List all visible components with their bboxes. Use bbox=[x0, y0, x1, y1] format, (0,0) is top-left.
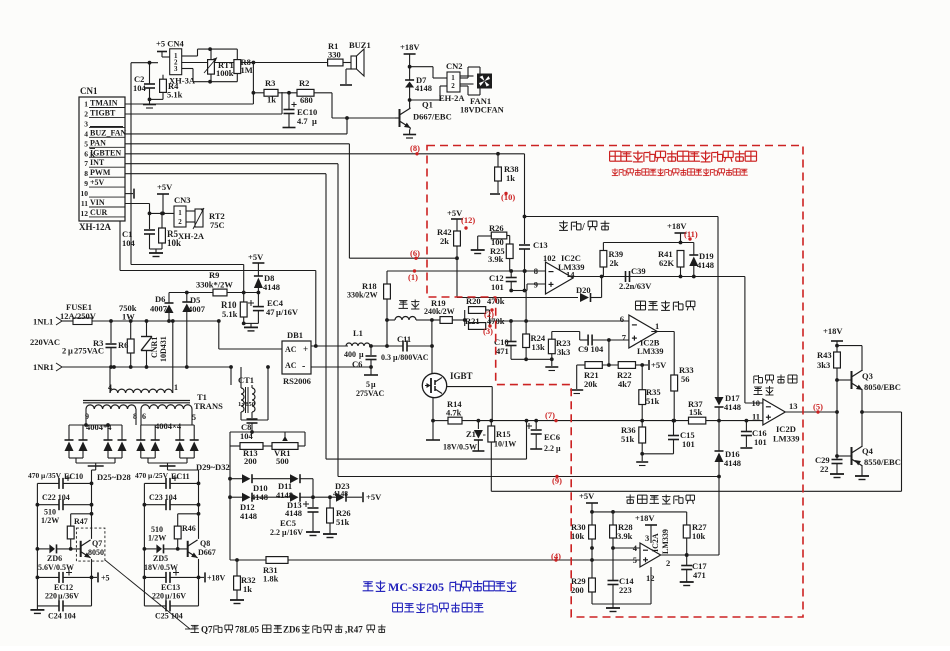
label drive square wave bbox=[754, 375, 798, 396]
svg-text:μ: μ bbox=[312, 116, 317, 126]
svg-text:1/2W: 1/2W bbox=[148, 534, 166, 543]
svg-text:AC: AC bbox=[285, 345, 297, 354]
zener ZD5 18V bbox=[144, 544, 188, 572]
diode D23 +5V bbox=[333, 481, 382, 502]
svg-text:R3: R3 bbox=[93, 338, 103, 348]
wire PAN to node 6 bbox=[125, 144, 457, 258]
svg-text:7: 7 bbox=[84, 159, 88, 168]
svg-text:5: 5 bbox=[84, 139, 88, 148]
label IC2C LM339 bbox=[543, 253, 584, 280]
wire drive out bbox=[785, 410, 864, 414]
svg-text:4148: 4148 bbox=[333, 489, 348, 498]
svg-text:10: 10 bbox=[81, 189, 89, 198]
thermistor RT2 75C bbox=[193, 208, 225, 230]
svg-text:CN3: CN3 bbox=[174, 195, 191, 205]
capacitor C25 104 bbox=[144, 600, 198, 620]
wire DB1+ to L1 bbox=[311, 344, 348, 348]
wire +5 reg rails bbox=[30, 466, 95, 613]
svg-text:R6: R6 bbox=[118, 340, 128, 350]
wire vertical 718 upper bbox=[717, 217, 719, 398]
wire C8 node bbox=[230, 430, 305, 446]
svg-text:C11: C11 bbox=[397, 334, 411, 344]
wire node R3-R2 bbox=[253, 91, 291, 95]
resistor R30 10k bbox=[571, 512, 595, 578]
op-amp IC2D bbox=[752, 398, 798, 425]
wire top rail IC2A bbox=[590, 510, 687, 514]
capacitor EC6 2.2u bbox=[526, 421, 561, 453]
power +18V IC2A bbox=[635, 513, 657, 543]
label D25~D28 bbox=[97, 472, 131, 482]
terminal pin10 bar bbox=[125, 189, 134, 199]
diodes D10 D11 bbox=[230, 474, 313, 502]
red node (9) bbox=[552, 476, 562, 486]
svg-text:C24 104: C24 104 bbox=[48, 612, 76, 621]
wire IC2B out bbox=[651, 332, 674, 376]
svg-text:8050: 8050 bbox=[88, 548, 104, 557]
svg-text:10D431: 10D431 bbox=[159, 336, 168, 362]
svg-text:51k: 51k bbox=[336, 517, 350, 527]
svg-text:,R47: ,R47 bbox=[345, 625, 363, 635]
svg-text:R2: R2 bbox=[299, 78, 309, 88]
svg-text:1NR1: 1NR1 bbox=[33, 362, 54, 372]
svg-text:1:/850: 1:/850 bbox=[238, 401, 255, 408]
ground EC4 bbox=[242, 322, 259, 331]
wire TIGBT bbox=[125, 92, 282, 114]
resistors R21 R22 bbox=[577, 360, 667, 370]
transistor Q7 8050 bbox=[76, 528, 105, 561]
svg-text:200: 200 bbox=[244, 456, 257, 466]
resistor R14 4.7k bbox=[433, 399, 462, 424]
resistor R23 3k3 bbox=[545, 332, 570, 371]
svg-text:8050/EBC: 8050/EBC bbox=[864, 382, 901, 392]
wire to pin6 bbox=[490, 319, 629, 323]
wire +18 reg rails bbox=[143, 466, 201, 606]
svg-text:RS2006: RS2006 bbox=[283, 376, 311, 386]
svg-text:D20: D20 bbox=[576, 285, 591, 295]
svg-text:5.1k: 5.1k bbox=[167, 90, 183, 100]
wire CT1 to DB1 bbox=[241, 365, 270, 420]
connector CN1 XH-12A bbox=[79, 86, 127, 232]
svg-text:/16V: /16V bbox=[286, 528, 303, 537]
red node (11) bbox=[684, 229, 698, 239]
svg-text:1M: 1M bbox=[241, 65, 253, 75]
wire to pin10 bbox=[745, 277, 763, 404]
svg-text:18VDCFAN: 18VDCFAN bbox=[460, 105, 505, 115]
svg-text:EC10: EC10 bbox=[64, 472, 83, 481]
svg-text:EH-2A: EH-2A bbox=[439, 93, 465, 103]
power +18V R41 bbox=[667, 221, 687, 244]
svg-text:400: 400 bbox=[344, 350, 356, 359]
svg-text:IC2D: IC2D bbox=[776, 424, 796, 434]
resistor R19 240k/2W bbox=[424, 298, 467, 323]
terminal 1NL1 bbox=[33, 317, 73, 327]
svg-text:CN2: CN2 bbox=[446, 61, 463, 71]
wire divider bbox=[607, 340, 611, 367]
svg-text:/36V: /36V bbox=[62, 592, 79, 601]
wire D7 to CN2 bbox=[410, 67, 447, 100]
IGBT transistor bbox=[422, 346, 492, 421]
svg-text:4004×4: 4004×4 bbox=[155, 421, 182, 431]
svg-text:+18V: +18V bbox=[823, 326, 843, 336]
capacitor C6 5u bbox=[352, 344, 385, 398]
wire VIN to CN3 bbox=[125, 204, 174, 216]
svg-text:+5V: +5V bbox=[90, 178, 105, 187]
resistor R46 510 bbox=[148, 514, 199, 551]
svg-text:2: 2 bbox=[666, 558, 670, 568]
svg-text:R46: R46 bbox=[182, 524, 196, 533]
wire INT long bus bbox=[125, 164, 718, 477]
svg-text:R18: R18 bbox=[362, 281, 377, 291]
fan FAN1 18VDCFAN bbox=[460, 67, 505, 115]
red dashed boundary small board bbox=[427, 146, 803, 618]
ground C2 R4 bbox=[143, 99, 156, 108]
svg-text:+5V: +5V bbox=[248, 252, 264, 262]
diode D7 4148 bbox=[405, 65, 432, 108]
svg-text:(7): (7) bbox=[545, 410, 555, 420]
power +5V CN3 bbox=[157, 182, 173, 215]
capacitor C2 104 bbox=[133, 63, 155, 102]
svg-text:0.3: 0.3 bbox=[381, 353, 391, 362]
svg-text:500: 500 bbox=[276, 456, 289, 466]
red node (1) bbox=[408, 272, 418, 282]
svg-text:2: 2 bbox=[84, 109, 88, 118]
svg-text:5.1k: 5.1k bbox=[222, 309, 238, 319]
resistor R37 15k bbox=[688, 399, 706, 424]
capacitor 2u X-cap R3 bbox=[93, 321, 117, 367]
svg-text:(11): (11) bbox=[684, 229, 698, 239]
capacitor EC10 470u/35V bbox=[28, 471, 92, 489]
svg-text:μ: μ bbox=[68, 346, 73, 356]
resistor R26 51k bbox=[323, 497, 351, 537]
svg-text:56: 56 bbox=[681, 374, 690, 384]
diode D5 4007 bbox=[182, 291, 205, 367]
svg-text:K: K bbox=[90, 151, 96, 159]
capacitor EC13 220u/16V bbox=[144, 570, 198, 601]
capacitor C29 22 bbox=[815, 412, 844, 478]
wire CT sense down bbox=[228, 446, 232, 560]
diodes D12 D13 bbox=[230, 493, 336, 521]
capacitor C24 104 bbox=[37, 600, 91, 620]
resistor R35 51k bbox=[639, 365, 661, 421]
svg-text:1.8k: 1.8k bbox=[263, 574, 279, 584]
svg-text:μ: μ bbox=[556, 444, 561, 453]
svg-text:1k: 1k bbox=[506, 173, 515, 183]
inductor pan coil bbox=[387, 300, 434, 322]
svg-text:20k: 20k bbox=[584, 379, 598, 389]
svg-text:2: 2 bbox=[178, 218, 182, 226]
svg-text:Q7: Q7 bbox=[92, 539, 102, 548]
capacitor EC4 47u/16V bbox=[248, 293, 299, 324]
svg-text:VIN: VIN bbox=[90, 198, 105, 207]
label IC2D LM339 bbox=[773, 424, 799, 444]
zener Z1 18V bbox=[443, 421, 486, 452]
svg-text:4148: 4148 bbox=[697, 260, 714, 270]
leader line note bbox=[105, 560, 196, 629]
label current surge protect bbox=[626, 495, 695, 505]
svg-text:3k3: 3k3 bbox=[817, 360, 830, 370]
resistor R24 13k bbox=[523, 291, 546, 362]
svg-text:10/1W: 10/1W bbox=[494, 440, 516, 449]
svg-text:CUR: CUR bbox=[90, 208, 108, 217]
capacitor EC11 470u/25V bbox=[135, 471, 199, 489]
svg-text:ZD5: ZD5 bbox=[153, 554, 168, 563]
svg-text:471: 471 bbox=[496, 346, 509, 356]
capacitor C23 104 bbox=[144, 493, 198, 510]
svg-text:2k: 2k bbox=[440, 236, 449, 246]
resistor R39 2k bbox=[600, 249, 623, 277]
capacitor C12 101 bbox=[489, 271, 517, 292]
svg-text:C9 104: C9 104 bbox=[578, 344, 604, 354]
svg-text:R21: R21 bbox=[465, 316, 480, 326]
svg-text:4.7k: 4.7k bbox=[446, 408, 462, 418]
label anti-peak protect bbox=[636, 301, 695, 311]
IGBT emitter terminal bbox=[426, 419, 440, 440]
svg-text:/16V: /16V bbox=[169, 592, 186, 601]
svg-text:+5 CN4: +5 CN4 bbox=[156, 39, 184, 49]
diode D6 4007 bbox=[150, 293, 174, 323]
capacitor EC5 2.2u/16V bbox=[270, 497, 320, 537]
svg-text:R47: R47 bbox=[74, 517, 88, 526]
transistor Q8 D667 bbox=[188, 539, 216, 558]
connector CN2 EH-2A bbox=[439, 61, 474, 103]
svg-text:R15: R15 bbox=[496, 429, 511, 439]
svg-text:+5: +5 bbox=[101, 574, 110, 583]
red node (2) bbox=[484, 309, 494, 319]
wire DB1- return bbox=[311, 365, 373, 369]
svg-text:8550/EBC: 8550/EBC bbox=[864, 457, 901, 467]
svg-text:51k: 51k bbox=[646, 396, 660, 406]
op-amp IC2C bbox=[534, 262, 573, 294]
diode D8 4148 bbox=[254, 273, 280, 293]
svg-text:5: 5 bbox=[366, 380, 370, 389]
svg-text:4007: 4007 bbox=[188, 304, 206, 314]
svg-text:4: 4 bbox=[108, 383, 112, 392]
svg-text:18V/0.5W: 18V/0.5W bbox=[443, 443, 477, 452]
svg-text:BUZ1: BUZ1 bbox=[349, 40, 371, 50]
svg-text:3.9k: 3.9k bbox=[488, 254, 504, 264]
connector CN3 XH-2A bbox=[174, 195, 205, 241]
svg-text:200: 200 bbox=[571, 585, 584, 595]
svg-text:22: 22 bbox=[820, 464, 829, 474]
svg-text:D6: D6 bbox=[155, 294, 165, 304]
svg-text:9: 9 bbox=[84, 179, 88, 188]
svg-text:1: 1 bbox=[655, 321, 659, 331]
resistor R8 1M bbox=[234, 49, 253, 82]
capacitor EC12 220u/36V bbox=[37, 570, 91, 601]
capacitor C8 104 bbox=[240, 416, 258, 441]
wire coil down bbox=[431, 320, 433, 346]
red node (8) bbox=[410, 143, 420, 153]
svg-text:223: 223 bbox=[619, 585, 632, 595]
svg-text:(12): (12) bbox=[461, 215, 475, 225]
capacitor C39 2.2n bbox=[619, 266, 652, 291]
wire +5 rail left bbox=[131, 61, 158, 265]
svg-text:C23 104: C23 104 bbox=[149, 493, 177, 502]
svg-text:D667: D667 bbox=[198, 548, 216, 557]
svg-text:μ: μ bbox=[359, 350, 364, 359]
svg-text:12: 12 bbox=[646, 573, 655, 583]
wire node 1 line bbox=[387, 269, 546, 273]
ground Q4 bbox=[855, 466, 869, 480]
svg-text:IC2A: IC2A bbox=[651, 533, 660, 552]
svg-text:4: 4 bbox=[84, 129, 88, 138]
ground CN3 cluster bbox=[149, 249, 163, 257]
resistor R3top 1k bbox=[264, 78, 297, 105]
svg-text:INT: INT bbox=[90, 158, 105, 167]
svg-text:IGBT: IGBT bbox=[450, 371, 473, 381]
wire BUZ_FAN bbox=[125, 116, 349, 134]
wire pin9 bbox=[509, 284, 545, 292]
red node (3) bbox=[483, 326, 493, 336]
label D29~D32 bbox=[196, 462, 230, 472]
svg-text:12: 12 bbox=[81, 209, 89, 218]
svg-text:62K: 62K bbox=[659, 258, 675, 268]
svg-text:/35V: /35V bbox=[45, 471, 62, 480]
wire out to gate bus bbox=[862, 411, 902, 413]
wire sync top bbox=[525, 216, 719, 218]
svg-text:CNR1: CNR1 bbox=[150, 337, 159, 358]
zener ZD6 5.6V bbox=[37, 544, 80, 572]
svg-text:+18V: +18V bbox=[635, 513, 655, 523]
transformer CT1 1:850 bbox=[238, 367, 255, 420]
resistor R13 200 bbox=[230, 443, 263, 466]
power +18V Q3 bbox=[823, 326, 843, 352]
capacitor C16 101 bbox=[740, 421, 766, 448]
svg-text:LM339: LM339 bbox=[661, 529, 670, 554]
svg-text:1NL1: 1NL1 bbox=[33, 317, 53, 327]
resistor R6 750k 1W bbox=[118, 303, 137, 367]
capacitor C17 471 bbox=[680, 555, 708, 586]
resistor R47 510 bbox=[41, 508, 92, 551]
power +5V R42 bbox=[447, 208, 463, 231]
red node (5) bbox=[813, 402, 823, 412]
svg-text:6: 6 bbox=[142, 412, 146, 421]
red node (4) bbox=[551, 551, 561, 561]
svg-text:(10): (10) bbox=[501, 192, 515, 202]
wire L to DB1 bbox=[219, 321, 282, 349]
svg-text:1W: 1W bbox=[122, 312, 135, 322]
svg-text:Q1: Q1 bbox=[422, 100, 433, 110]
svg-text:ZD6: ZD6 bbox=[283, 625, 301, 635]
svg-text:+5V: +5V bbox=[157, 182, 173, 192]
svg-text:2k: 2k bbox=[610, 258, 619, 268]
inductor L1 400u bbox=[344, 328, 370, 359]
label IC2B LM339 bbox=[637, 338, 663, 357]
transistor Q4 8550 bbox=[835, 446, 901, 467]
labels R21 R22 bbox=[584, 370, 632, 389]
wire TMAIN bbox=[125, 63, 255, 105]
resistor R32 1k bbox=[230, 560, 256, 604]
svg-text:R43: R43 bbox=[817, 350, 832, 360]
wire R42 down bbox=[456, 258, 458, 297]
transistor Q1 D667 bbox=[395, 100, 452, 139]
capacitor C15 101 bbox=[668, 421, 695, 454]
svg-text:+18V: +18V bbox=[400, 42, 420, 52]
svg-text:470: 470 bbox=[28, 471, 40, 480]
svg-text:47: 47 bbox=[266, 307, 275, 317]
thermistor RT1 100k bbox=[204, 49, 234, 82]
resistor R4 5.1k bbox=[150, 75, 183, 100]
svg-text:Q4: Q4 bbox=[862, 446, 874, 456]
red node (6) bbox=[410, 248, 420, 258]
svg-text:10k: 10k bbox=[692, 531, 706, 541]
svg-text:4148: 4148 bbox=[285, 508, 302, 518]
label 4004x4 bbox=[86, 421, 182, 432]
resistor R9 330k/2W bbox=[169, 270, 260, 296]
capacitor EC10 bbox=[283, 93, 318, 128]
svg-text:XH-12A: XH-12A bbox=[79, 222, 111, 232]
resistors R20 R21 470k bbox=[465, 296, 505, 329]
svg-text:/800VAC: /800VAC bbox=[397, 353, 429, 362]
svg-text:75C: 75C bbox=[210, 220, 225, 230]
svg-text:+5V: +5V bbox=[366, 492, 382, 502]
terminal +5 out bbox=[92, 572, 110, 582]
blue title MC-SF205 bbox=[363, 580, 517, 594]
wire N to CT1 bbox=[230, 367, 232, 385]
ground R36 C15 bbox=[636, 454, 673, 466]
svg-text:1: 1 bbox=[178, 209, 182, 217]
label 220VAC bbox=[30, 337, 104, 356]
svg-text:3: 3 bbox=[84, 119, 88, 128]
wire Q3 collector bbox=[835, 344, 862, 371]
svg-text:/16V: /16V bbox=[280, 307, 299, 317]
wire osc out bbox=[568, 275, 745, 279]
svg-text:4007: 4007 bbox=[150, 304, 168, 314]
svg-text:EC6: EC6 bbox=[544, 432, 560, 442]
buzzer BUZ1 bbox=[340, 40, 371, 85]
potentiometer VR1 500 bbox=[263, 432, 305, 466]
svg-text:4.7: 4.7 bbox=[297, 116, 308, 126]
diode D20 bbox=[580, 275, 603, 302]
diode D16 4148 bbox=[715, 421, 742, 479]
svg-text:330: 330 bbox=[328, 50, 341, 60]
capacitor C10 471 bbox=[494, 321, 552, 359]
svg-text:C22 104: C22 104 bbox=[42, 493, 70, 502]
bridge diodes D29-D32 bbox=[136, 409, 198, 466]
svg-text:PAN: PAN bbox=[90, 138, 106, 147]
svg-text:4148: 4148 bbox=[263, 282, 280, 292]
svg-text:10k: 10k bbox=[571, 531, 585, 541]
resistor R25 3.9k bbox=[488, 236, 513, 272]
svg-text:TRANS: TRANS bbox=[194, 401, 223, 411]
red wire markers bbox=[413, 152, 820, 562]
label R31 1.8k bbox=[263, 565, 279, 584]
svg-text:11: 11 bbox=[752, 412, 760, 422]
svg-text:100k: 100k bbox=[216, 68, 234, 78]
svg-text:2: 2 bbox=[451, 82, 455, 90]
svg-text:11: 11 bbox=[81, 199, 88, 208]
red node (10) bbox=[501, 192, 515, 202]
wire Q3-Q4 bbox=[861, 390, 863, 446]
svg-text:(3): (3) bbox=[483, 326, 493, 336]
svg-text:330k/2W: 330k/2W bbox=[347, 291, 378, 300]
svg-text:3: 3 bbox=[645, 533, 649, 543]
red node (7) bbox=[545, 410, 555, 420]
svg-text:(5): (5) bbox=[813, 402, 823, 412]
ground IC2A bbox=[592, 567, 651, 612]
svg-text:3.9k: 3.9k bbox=[617, 531, 633, 541]
svg-text:PWM: PWM bbox=[90, 168, 111, 177]
svg-text:(1): (1) bbox=[408, 272, 418, 282]
svg-text:5: 5 bbox=[192, 413, 196, 422]
svg-text:D29~D32: D29~D32 bbox=[196, 462, 230, 472]
svg-text:1: 1 bbox=[174, 383, 178, 392]
transistor Q3 8050 bbox=[835, 370, 901, 392]
svg-text:6: 6 bbox=[620, 314, 624, 324]
blue subtitle bbox=[393, 603, 484, 613]
resistor R26 100 bbox=[471, 223, 507, 254]
svg-text:μ: μ bbox=[371, 380, 376, 389]
